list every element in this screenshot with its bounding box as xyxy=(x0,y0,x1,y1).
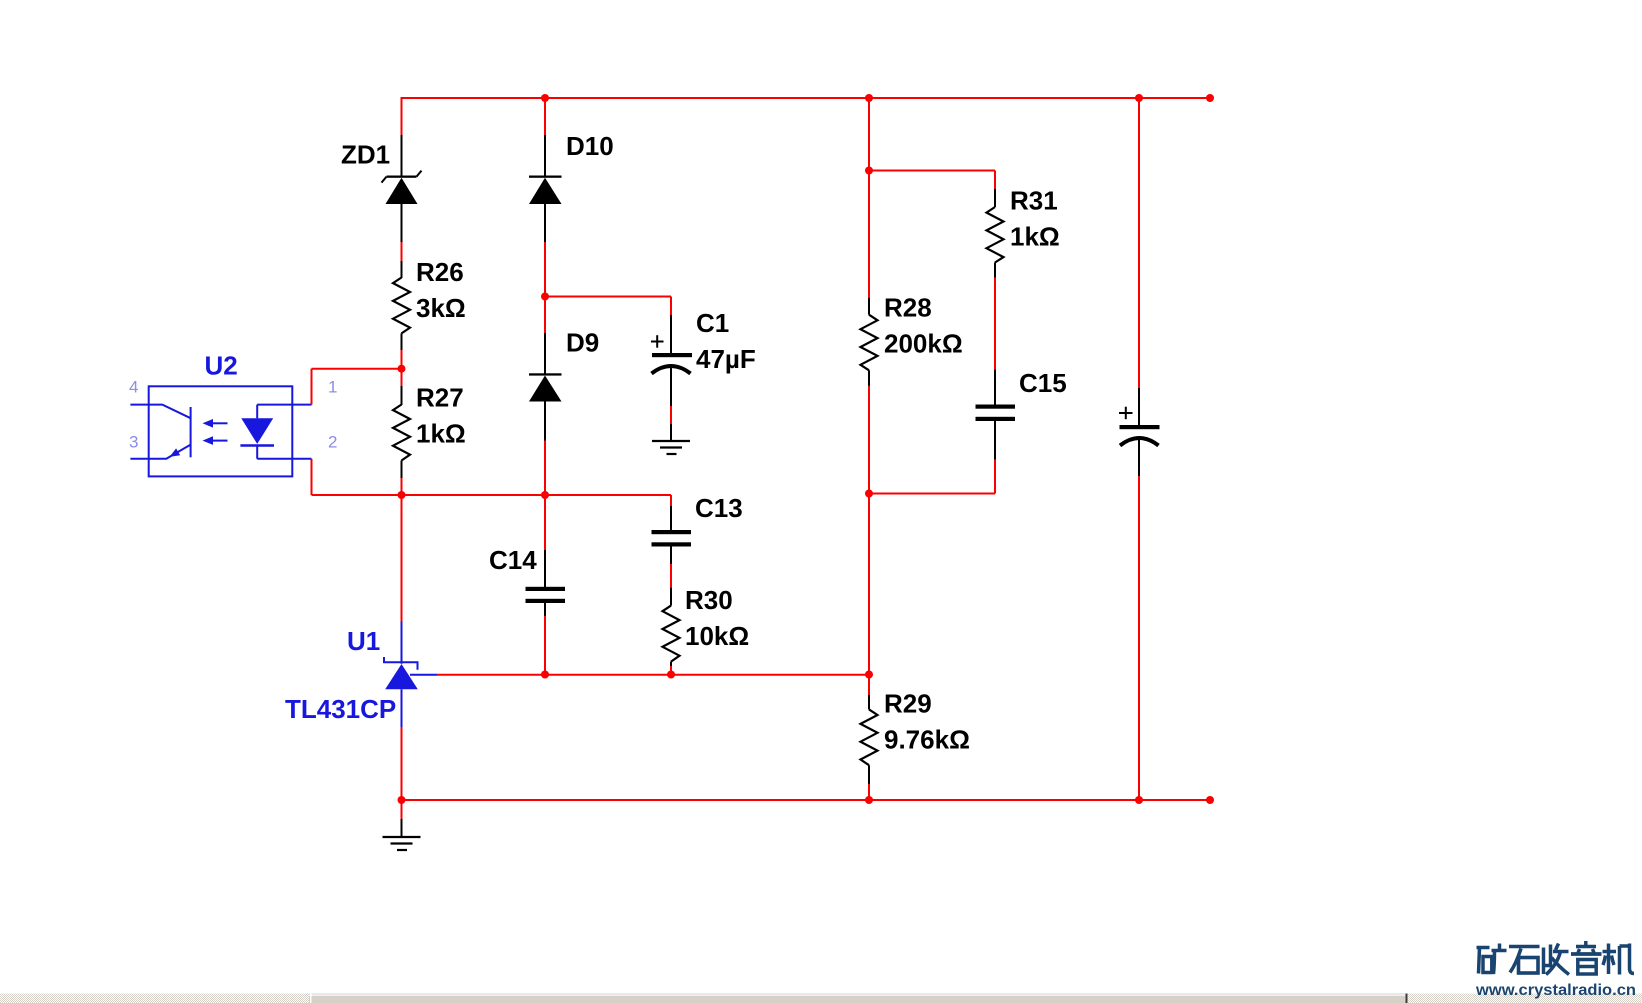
svg-text:U1: U1 xyxy=(347,626,380,656)
svg-text:9.76kΩ: 9.76kΩ xyxy=(884,725,970,755)
svg-text:C15: C15 xyxy=(1019,368,1067,398)
svg-text:3kΩ: 3kΩ xyxy=(416,293,466,323)
svg-text:10kΩ: 10kΩ xyxy=(685,621,749,651)
svg-text:www.crystalradio.cn: www.crystalradio.cn xyxy=(1475,982,1636,999)
svg-text:R31: R31 xyxy=(1010,186,1058,216)
svg-text:2: 2 xyxy=(328,433,337,452)
svg-text:200kΩ: 200kΩ xyxy=(884,329,963,359)
svg-text:C1: C1 xyxy=(696,308,729,338)
svg-text:D10: D10 xyxy=(566,131,614,161)
svg-text:C14: C14 xyxy=(489,545,537,575)
svg-text:U2: U2 xyxy=(205,350,238,380)
svg-text:1: 1 xyxy=(328,378,337,397)
svg-text:TL431CP: TL431CP xyxy=(285,694,396,724)
svg-text:R28: R28 xyxy=(884,293,932,323)
svg-text:D9: D9 xyxy=(566,328,599,358)
svg-text:R26: R26 xyxy=(416,257,464,287)
svg-text:C13: C13 xyxy=(695,493,743,523)
svg-text:1kΩ: 1kΩ xyxy=(416,419,466,449)
svg-text:1kΩ: 1kΩ xyxy=(1010,222,1060,252)
svg-text:4: 4 xyxy=(129,378,138,397)
svg-text:R29: R29 xyxy=(884,689,932,719)
svg-text:47µF: 47µF xyxy=(696,344,756,374)
svg-text:R30: R30 xyxy=(685,585,733,615)
svg-text:ZD1: ZD1 xyxy=(341,140,390,170)
svg-text:R27: R27 xyxy=(416,383,464,413)
svg-text:3: 3 xyxy=(129,433,138,452)
